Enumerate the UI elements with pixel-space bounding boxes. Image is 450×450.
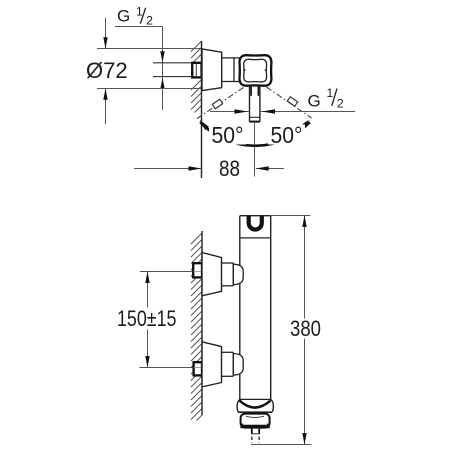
svg-text:G: G	[308, 92, 321, 111]
threaded nipple upper (G1/2)	[193, 263, 202, 277]
wall line (top drawing)	[201, 41, 203, 178]
svg-text:2: 2	[146, 14, 153, 28]
extension line bottom	[97, 88, 202, 90]
spray head	[241, 414, 270, 428]
lever stem	[250, 86, 260, 122]
wall hatching (top drawing)	[191, 41, 202, 113]
handle outer (squircle)	[239, 55, 271, 86]
swing line right (dash-dot 50°)	[267, 87, 312, 118]
wall hatching (bottom drawing)	[191, 233, 202, 421]
escutcheon lower	[202, 342, 222, 387]
threaded nipple lower (G1/2)	[194, 362, 202, 375]
threaded nipple G1/2 (top drawing)	[192, 63, 201, 78]
union cap lower	[233, 354, 243, 376]
arrow line below	[105, 89, 107, 125]
leader line under G1/2	[115, 26, 163, 28]
svg-text:2: 2	[337, 96, 344, 110]
outlet section line	[240, 398, 271, 400]
50° swing arc	[200, 122, 310, 146]
escutcheon flange (top drawing)	[202, 49, 222, 91]
mixer body	[240, 216, 271, 400]
50° label left	[209, 125, 246, 145]
leader line to right G1/2 (outlet thread)	[210, 109, 355, 113]
connector tube upper	[222, 263, 234, 286]
stem centerline (extension for 88)	[254, 122, 256, 177]
lever end marker right	[287, 97, 297, 106]
svg-text:88: 88	[219, 156, 240, 181]
extension line passing through nipples	[193, 271, 201, 273]
valve connector body	[222, 58, 240, 82]
escutcheon upper	[202, 253, 222, 296]
50° label right	[268, 125, 305, 145]
extension line lower connection	[139, 367, 202, 369]
extension line upper connection	[140, 271, 202, 273]
label G1/2 (right)	[308, 86, 345, 111]
handle inner outline	[244, 59, 267, 82]
connector tube lower	[222, 352, 234, 376]
swing line left (dash-dot 50°)	[197, 88, 244, 119]
dimension Ø72 (escutcheon diameter)	[86, 18, 202, 124]
dimension 380	[251, 216, 321, 445]
collar line	[240, 237, 271, 239]
extension line top	[97, 48, 202, 50]
svg-text:50°: 50°	[271, 122, 303, 148]
svg-text:150±15: 150±15	[117, 306, 177, 331]
arrow up to nipple bottom	[160, 78, 164, 89]
svg-text:1: 1	[136, 4, 143, 18]
hidden hose nipple (dashed)	[252, 437, 259, 444]
svg-text:Ø72: Ø72	[86, 58, 128, 83]
outlet cup	[237, 399, 273, 412]
dimension 88	[134, 156, 284, 181]
svg-text:G: G	[117, 6, 130, 25]
handle inner notches	[244, 69, 246, 72]
lever end marker left	[212, 99, 222, 108]
dimension G1/2 (top-left label)	[115, 4, 165, 110]
svg-text:380: 380	[290, 316, 321, 341]
arrow line above	[105, 18, 107, 49]
arc arrowhead left	[200, 120, 210, 130]
outlet nipple	[252, 429, 259, 435]
union cap upper	[233, 264, 243, 284]
hand shower hook	[249, 216, 262, 230]
supply pipe in wall	[153, 63, 192, 77]
dimension 150±15	[117, 272, 177, 368]
svg-text:50°: 50°	[212, 122, 244, 148]
arrow down to nipple top	[160, 51, 164, 62]
svg-text:1: 1	[327, 86, 334, 100]
wall line (bottom drawing)	[201, 231, 203, 415]
arc arrowhead right	[300, 120, 310, 130]
